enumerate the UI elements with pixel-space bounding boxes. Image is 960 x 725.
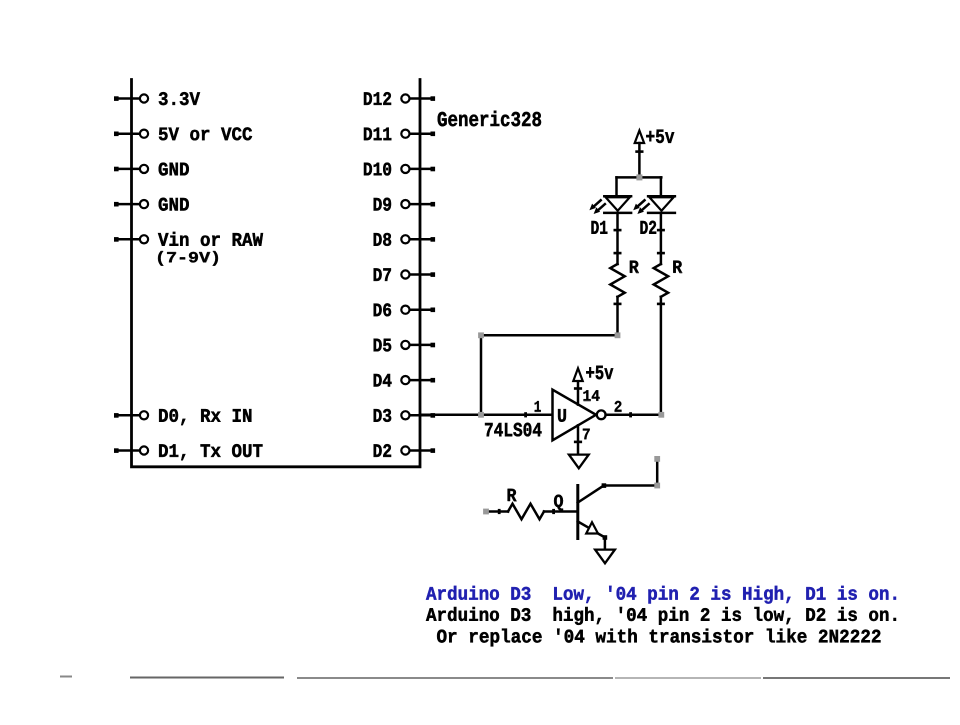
pin wire right D7 (401, 270, 435, 278)
pin label 3.3V (159, 92, 200, 105)
inverter part number 74LS04 (485, 423, 541, 437)
pin wire right D5 (401, 341, 435, 349)
pin wire left Vin or RAW (114, 235, 148, 243)
pin wire right D6 (401, 306, 435, 314)
junction output node / D2 branch (658, 412, 664, 418)
LED D1 emission arrows (589, 200, 605, 214)
pin label 5V or VCC (159, 127, 252, 140)
inverter pin 7 wire (574, 425, 582, 453)
IC U2 Generic328 body (132, 80, 421, 467)
pin label D4 (374, 374, 392, 387)
transistor Q label (554, 495, 563, 511)
node collector corner (654, 483, 660, 489)
wire emitter to ground (603, 535, 608, 548)
separator dash bottom left (60, 676, 72, 678)
wire D1 cathode down (614, 213, 622, 264)
LED D2 (648, 196, 675, 213)
pin label D7 (374, 268, 391, 281)
wire R1 bottom to corner (614, 297, 622, 336)
wire collector horizontal (602, 483, 658, 488)
power +5v label (LED rail) (646, 130, 674, 143)
resistor R (D1 branch) (610, 264, 624, 297)
LED D2 emission arrows (633, 200, 649, 214)
pin wire left D0, Rx IN (114, 411, 148, 419)
op-amp/inverter U 74LS04 body (553, 390, 597, 441)
pin wire left GND (114, 165, 148, 173)
wire D2 cathode down (657, 213, 665, 264)
pin label GND (159, 163, 189, 176)
separator segment 4 (763, 677, 950, 679)
inverter pin 14 wire (574, 382, 582, 405)
junction on +5v LED rail (636, 174, 642, 180)
wire D3 to inverter input (420, 412, 553, 417)
power +5v arrow (LED rail) (635, 131, 644, 144)
pin wire right D3 (401, 411, 435, 419)
LED D2 label (640, 221, 656, 234)
ground (emitter) (595, 550, 615, 564)
pin wire right D8 (401, 235, 435, 243)
pin label D3 (374, 409, 392, 422)
wire anode stub D2 (660, 177, 663, 196)
pin label (7-9V) second line (158, 251, 218, 265)
pin wire left 3.3V (114, 94, 148, 102)
resistor R (D2 branch) (654, 264, 668, 297)
pin label D10 (364, 163, 391, 176)
LED D1 label (591, 221, 607, 234)
transistor Q1 emitter lead with arrow (578, 522, 605, 538)
inverter pin 7 label (583, 429, 590, 440)
wire R1 branch horizontal (481, 334, 618, 337)
inverter pin 2 label (615, 401, 622, 412)
pin label GND (159, 198, 189, 211)
wire base resistor right lead (544, 509, 577, 514)
wire +5v down to LED rail (635, 143, 643, 177)
inverter pin 14 label (583, 390, 599, 401)
pin wire right D4 (401, 376, 435, 384)
wire inverter output (606, 412, 662, 417)
power +5v label (inverter) (586, 366, 613, 379)
pin wire right D10 (401, 165, 435, 173)
transistor Q1 collector lead (578, 486, 604, 503)
pin wire left GND (114, 200, 148, 208)
IC U2 label Generic328 (438, 111, 541, 126)
node top of vertical feedback wire (478, 332, 484, 338)
power +5v arrow (inverter pin 14) (573, 368, 582, 381)
pin label Vin or RAW (158, 232, 263, 246)
pin label D0, Rx IN (159, 409, 251, 425)
inverter U output bubble (597, 410, 606, 419)
node top of collector wire (654, 456, 660, 462)
pin wire right D2 (401, 446, 435, 454)
resistor R (D1 branch) label (630, 261, 639, 273)
annotation line 1 (blue) (426, 586, 896, 604)
wire collector vertical (656, 459, 659, 486)
node base wire start (483, 509, 489, 515)
inverter pin 1 label (535, 401, 541, 412)
wire anode stub D1 (615, 177, 618, 196)
annotation line 2 (426, 607, 896, 625)
pin label D1, Tx OUT (159, 444, 262, 460)
separator segment 2 (297, 677, 613, 679)
junction on D3 net (478, 412, 484, 418)
separator segment 1 (130, 677, 284, 679)
wire base resistor left lead (486, 509, 508, 514)
ground (inverter pin 7) (569, 455, 589, 469)
transistor Q1 base bar (576, 486, 579, 539)
wire R2 bottom down to inverter output node (657, 297, 665, 415)
pin label D9 (374, 198, 391, 211)
annotation line 3 (437, 629, 880, 647)
pin label D5 (374, 339, 391, 352)
LED D1 (604, 196, 631, 213)
pin label D11 (364, 128, 391, 141)
pin wire left 5V or VCC (114, 130, 148, 138)
pin wire left D1, Tx OUT (114, 446, 148, 454)
pin wire right D11 (401, 130, 435, 138)
pin wire right D9 (401, 200, 435, 208)
pin wire right D12 (401, 94, 435, 102)
resistor R (D2 branch) label (673, 261, 682, 273)
pin label D8 (374, 233, 391, 246)
pin label D12 (364, 92, 391, 105)
pin label D6 (374, 303, 391, 316)
separator segment 3 (615, 677, 761, 679)
inverter U label (558, 409, 566, 422)
corner node R1 branch (615, 332, 621, 338)
resistor R (base) (508, 504, 544, 520)
pin label D2 (374, 444, 391, 457)
resistor R (base) label (508, 489, 517, 501)
wire LED top rail (617, 176, 662, 179)
wire vertical down to D3 net (480, 335, 483, 415)
